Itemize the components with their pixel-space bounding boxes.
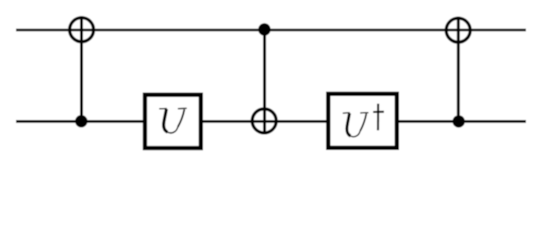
label U bbox=[159, 108, 186, 133]
label U of U-dagger bbox=[343, 113, 369, 137]
gate box U bbox=[145, 95, 201, 148]
CNOT target X1 (top wire) bbox=[70, 18, 94, 42]
wire: top qubit line bbox=[16, 29, 526, 32]
wire: bottom qubit line bbox=[16, 120, 526, 123]
gate box U-dagger bbox=[328, 94, 397, 148]
wire: CNOT2 vertical connector bbox=[263, 30, 266, 135]
CNOT target X3 (top wire) bbox=[446, 18, 470, 42]
control dot (bottom wire, CNOT1) bbox=[75, 115, 87, 127]
label dagger superscript: crossbar bbox=[373, 111, 384, 113]
label dagger superscript: stem bbox=[377, 104, 379, 131]
wire: CNOT3 vertical connector bbox=[457, 17, 460, 122]
CNOT target X2 (bottom wire) bbox=[252, 109, 276, 133]
control dot (bottom wire, CNOT3) bbox=[453, 115, 465, 127]
wire: CNOT1 vertical connector bbox=[80, 16, 83, 121]
control dot (top wire, CNOT2) bbox=[258, 23, 270, 35]
